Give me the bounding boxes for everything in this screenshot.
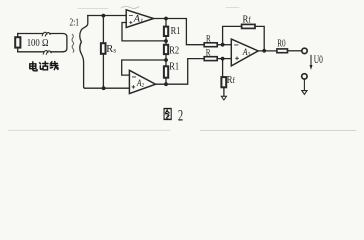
wire A1 + input down to R1/R2 node	[122, 23, 166, 41]
op-amp A3	[231, 39, 258, 66]
hanzi 电	[30, 62, 37, 71]
svg-text:2:1: 2:1	[70, 18, 80, 29]
resistor R (upper input of A3)	[204, 43, 217, 47]
ground below Rf	[221, 96, 226, 100]
wire R2/R1 node to A2 inverting input	[122, 60, 166, 75]
svg-text:2: 2	[178, 108, 183, 125]
wire bottom phone line	[18, 51, 64, 53]
resistor Rs	[101, 16, 106, 89]
svg-text:Rf: Rf	[243, 14, 252, 25]
output terminal U0 top	[302, 48, 307, 53]
hanzi 电话线 (drawn)	[30, 62, 58, 71]
svg-text:R1: R1	[169, 61, 179, 72]
wire secondary top to A1 inverting input	[88, 15, 126, 17]
scan artifact bottom hairline	[8, 129, 356, 131]
svg-text:Rs: Rs	[106, 44, 116, 55]
node A3 output	[262, 49, 266, 53]
resistor Rf (to ground at A3 + input)	[221, 59, 226, 97]
resistor 100Ω (phone line termination)	[15, 34, 20, 52]
node lower R / A3 + input	[221, 57, 225, 61]
wire break mark bottom	[43, 51, 51, 55]
arrow U0	[310, 55, 312, 65]
wire break mark top	[42, 32, 50, 36]
wire top phone line	[18, 34, 67, 52]
node bottom of Rs	[102, 86, 106, 90]
svg-text:R2: R2	[169, 45, 179, 56]
resistor R (lower input of A3)	[204, 57, 217, 61]
wire A3 output to R0	[258, 50, 277, 52]
node upper R / A3 - input	[221, 43, 225, 47]
svg-text:U0: U0	[314, 52, 323, 66]
wire R0 to output terminal	[288, 50, 302, 52]
output terminal lower	[302, 74, 307, 79]
wire A1 output to right rail	[154, 19, 205, 45]
ground below lower terminal	[302, 79, 307, 95]
hanzi 线	[50, 62, 58, 70]
svg-text:R: R	[206, 34, 211, 44]
wire bottom rail to A2 non-inverting input	[85, 87, 129, 89]
node R2/R1 junction	[164, 58, 168, 62]
node A1 output / R1 top	[164, 17, 168, 21]
resistor R2	[164, 41, 168, 60]
svg-text:A1: A1	[133, 15, 144, 25]
resistor R1 (bottom)	[164, 60, 168, 84]
svg-text:R: R	[206, 48, 211, 58]
scan artifact squiggle top	[121, 6, 139, 8]
resistor Rf (feedback of A3)	[223, 24, 265, 50]
svg-text:A2: A2	[136, 78, 144, 89]
svg-text:A3: A3	[242, 48, 250, 58]
node R1/R2 junction	[164, 39, 168, 43]
node A2 output / R1 bottom	[164, 82, 168, 86]
resistor R1 (top)	[164, 19, 168, 41]
op-amp A1	[126, 10, 153, 28]
svg-text:R0: R0	[277, 38, 286, 50]
hanzi 话	[40, 62, 48, 70]
transformer T1 secondary	[80, 16, 88, 89]
op-amp A2	[129, 70, 155, 93]
node top of Rs	[102, 14, 106, 18]
hanzi 图 (drawn)	[164, 109, 171, 120]
svg-text:100 Ω: 100 Ω	[27, 37, 49, 49]
resistor R0	[277, 49, 288, 53]
wire A2 output to lower R	[156, 59, 205, 85]
transformer T1 primary (2:1)	[72, 35, 74, 53]
svg-text:Rf: Rf	[227, 75, 236, 86]
svg-text:R1: R1	[171, 26, 181, 37]
